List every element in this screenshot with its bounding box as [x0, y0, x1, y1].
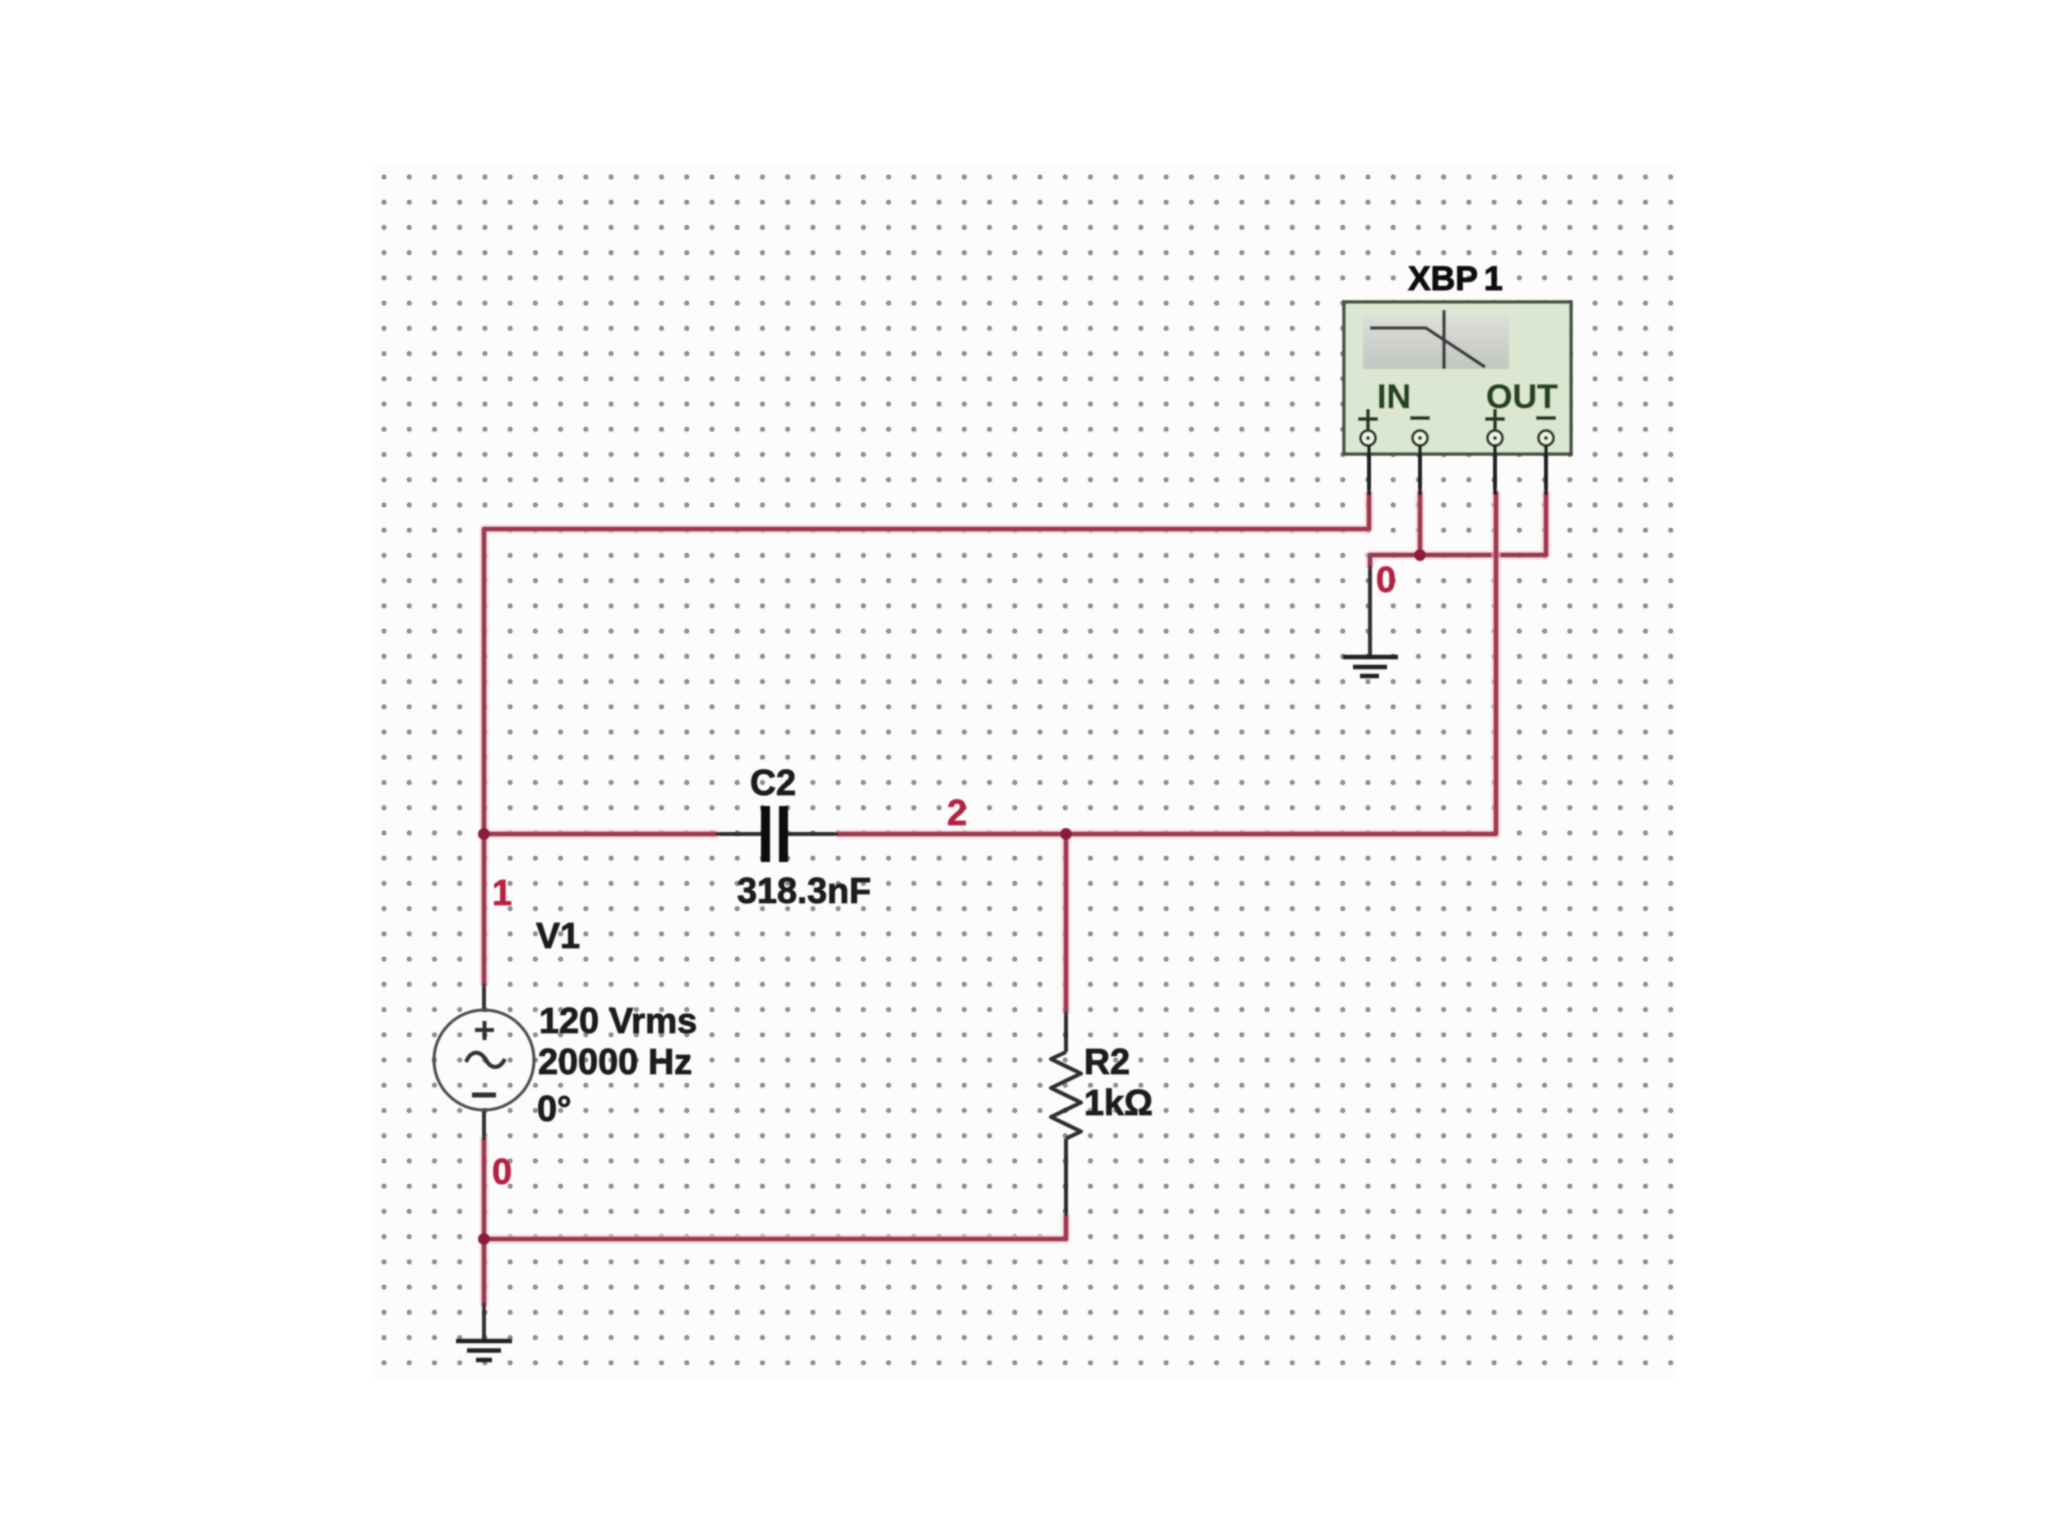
ground at V1 [456, 1303, 512, 1360]
svg-text:0: 0 [492, 1151, 512, 1192]
svg-text:C2: C2 [750, 762, 796, 803]
ground at XBP1 [1343, 566, 1398, 676]
wire node0: ground horizontal run under XBP1 [1370, 493, 1546, 566]
junction node 1 [478, 828, 490, 840]
svg-text:1kΩ: 1kΩ [1084, 1082, 1153, 1123]
capacitor C2 [716, 806, 838, 862]
wire node2: junction to capacitor right lead [838, 830, 1066, 839]
svg-text:XBP1: XBP1 [1408, 260, 1503, 298]
svg-text:0: 0 [1376, 559, 1396, 600]
svg-text:20000 Hz: 20000 Hz [538, 1041, 692, 1082]
svg-text:R2: R2 [1084, 1041, 1130, 1082]
svg-text:318.3nF: 318.3nF [737, 870, 871, 911]
wire node1: node 1 junction down to V1 top [480, 834, 489, 984]
wire node0: IN- stub down to ground run [1416, 493, 1425, 555]
wire node2: junction down to resistor R2 top [1062, 834, 1071, 1012]
wire node2: OUT+ stub, long vertical, horizontal to node 2 junction [1066, 493, 1496, 834]
svg-text:1: 1 [492, 872, 512, 913]
wire node0: resistor R2 bottom to bottom run to source junction [484, 1216, 1066, 1239]
junction node 0 at IN- [1414, 549, 1426, 561]
svg-text:V1: V1 [536, 915, 580, 956]
svg-text:IN: IN [1377, 378, 1411, 416]
junction node 0 at source bottom [478, 1233, 490, 1245]
wire node0: V1 bottom down through junction to ground [480, 1139, 489, 1305]
bode plotter XBP1 [1344, 302, 1571, 495]
wire node1: capacitor left lead to node 1 junction [484, 830, 716, 839]
svg-text:120 Vrms: 120 Vrms [539, 1000, 697, 1041]
wire node1: IN+ stub to corner, top horizontal run, left vertical down to node 1 junction [484, 493, 1369, 834]
junction node 2 [1060, 828, 1072, 840]
svg-text:0°: 0° [537, 1088, 571, 1129]
AC source V1 symbol [434, 984, 534, 1140]
svg-text:2: 2 [947, 792, 967, 833]
resistor R2 [1051, 1012, 1081, 1216]
